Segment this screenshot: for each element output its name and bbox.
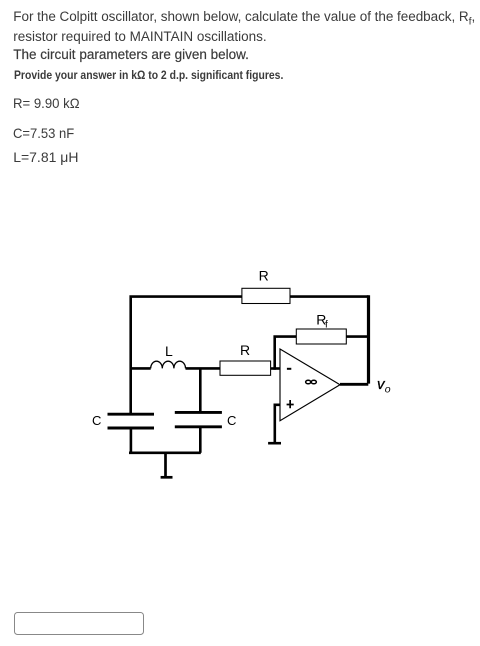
svg-text:L: L (165, 343, 173, 359)
svg-text:C: C (227, 413, 236, 428)
svg-text:C: C (92, 413, 101, 428)
svg-text:o: o (385, 384, 391, 396)
svg-text:R: R (259, 268, 269, 284)
svg-text:f: f (325, 319, 328, 330)
svg-text:R: R (240, 342, 250, 358)
